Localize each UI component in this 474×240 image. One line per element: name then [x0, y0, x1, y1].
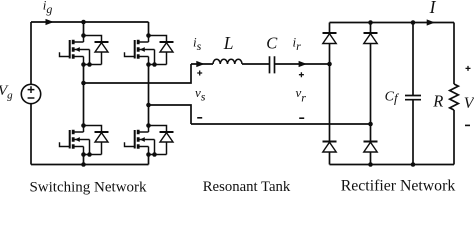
wire right leg drain drop to Q2: [148, 22, 150, 36]
polarity minus of V: [465, 124, 470, 126]
wire left leg midpoint (Q1 source to Q3 drain): [83, 65, 85, 126]
node dot drain Q4: [146, 123, 151, 128]
wire Q3 source to bottom rail: [83, 155, 85, 165]
wire rectifier leg2 top: [370, 23, 372, 34]
arrow ig on top rail: [46, 19, 54, 25]
inductor L: [213, 59, 242, 64]
wire Cf leg lower: [412, 100, 414, 165]
polarity plus of vs: [197, 71, 202, 76]
svg-text:ig: ig: [43, 0, 53, 16]
wire Cf leg upper: [412, 23, 414, 96]
node junction dot bottom rail left leg: [81, 162, 86, 167]
diode D7 rectifier leg1 bottom: [323, 142, 337, 153]
node dot left leg output tap: [81, 81, 86, 86]
arrow is on tank wire: [196, 61, 204, 67]
wire rectifier leg2 middle: [370, 44, 372, 142]
diode D5 rectifier leg1 top: [323, 33, 337, 44]
wire bottom rail of rectifier network: [330, 164, 455, 166]
polarity minus of vr: [299, 117, 304, 119]
diode D8 rectifier leg2 bottom: [364, 142, 378, 153]
wire rectifier leg1 bottom: [329, 152, 331, 165]
wire from L to capacitor C: [242, 63, 269, 65]
node dot drain Q2: [146, 33, 151, 38]
wire lower output from right leg tap: [149, 105, 192, 124]
wire top rail of switching network: [31, 21, 149, 23]
svg-text:Switching Network: Switching Network: [29, 180, 147, 196]
wire top rail of rectifier network: [330, 22, 455, 24]
svg-text:vr: vr: [296, 85, 307, 105]
svg-text:Resonant Tank: Resonant Tank: [203, 179, 291, 195]
wire load leg upper: [453, 23, 455, 85]
svg-text:I: I: [429, 0, 437, 17]
wire left branch from top rail down to source Vg: [30, 22, 32, 84]
node dot right leg output tap: [146, 103, 151, 108]
wire tank bottom return to rectifier leg2: [191, 123, 371, 125]
wire rectifier leg2 bottom: [370, 152, 372, 165]
arrow ir on tank wire: [299, 61, 307, 67]
node dot rectifier bottom rail leg2: [368, 162, 373, 167]
transistor Q4 with antiparallel diode D4 (bottom right): [125, 126, 174, 157]
transistor Q3 with antiparallel diode D3 (bottom left): [60, 126, 109, 157]
wire from C to rectifier: [275, 63, 330, 65]
svg-text:Rectifier Network: Rectifier Network: [341, 177, 456, 194]
wire Q4 source to bottom rail: [148, 155, 150, 165]
node junction dot top rail left leg: [81, 20, 86, 25]
svg-text:is: is: [193, 34, 202, 53]
polarity plus of vr: [299, 72, 304, 77]
node dot return wire at leg2: [368, 122, 373, 127]
svg-text:vs: vs: [195, 85, 206, 104]
wire left leg drain drop to Q1: [83, 22, 85, 36]
transistor Q1 with antiparallel diode D1 (top left): [60, 36, 109, 67]
wire right leg midpoint (Q2 source to Q4 drain): [148, 65, 150, 126]
wire bottom rail of switching network: [31, 164, 149, 166]
wire tank input segment: [191, 63, 213, 65]
node dot rectifier bottom rail Cf: [411, 162, 416, 167]
svg-text:R: R: [432, 91, 443, 110]
transistor Q2 with antiparallel diode D2 (top right): [125, 36, 174, 67]
wire rectifier leg1 middle: [329, 44, 331, 142]
svg-text:C: C: [266, 34, 278, 53]
arrow I on rectifier top rail: [427, 19, 435, 25]
svg-text:Vg: Vg: [0, 83, 13, 102]
node dot drain Q1: [81, 33, 86, 38]
node dot rectifier top rail Cf: [411, 20, 416, 25]
resistor R: [450, 84, 459, 110]
node dot drain Q3: [81, 123, 86, 128]
capacitor C: [270, 56, 275, 73]
wire upper output from left leg tap to tank: [84, 64, 192, 83]
voltage source Vg: [21, 84, 40, 103]
diode D6 rectifier leg2 top: [364, 33, 378, 44]
svg-text:ir: ir: [293, 35, 302, 54]
node dot rectifier top rail leg2: [368, 20, 373, 25]
node dot rectifier leg1 midpoint: [327, 62, 332, 67]
wire rectifier leg1 top: [329, 23, 331, 34]
wire load leg lower: [453, 110, 455, 165]
svg-text:Cf: Cf: [385, 90, 400, 106]
polarity minus of vs: [197, 117, 202, 119]
capacitor Cf: [405, 96, 421, 100]
polarity plus of V: [466, 66, 471, 71]
svg-text:L: L: [223, 33, 234, 53]
wire from source Vg down to bottom rail: [30, 104, 32, 165]
svg-text:V: V: [464, 95, 474, 112]
